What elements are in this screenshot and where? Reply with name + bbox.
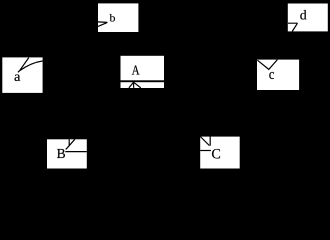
node c: [257, 60, 299, 90]
label d: [300, 10, 306, 20]
arrow head into node b (edge from a): [98, 22, 107, 27]
arrow head into node a (edge from b): [18, 58, 43, 73]
arrow head into node C (edge from A): [200, 137, 210, 146]
arrow head into node A bottom (edges from B and C): [129, 82, 141, 88]
node C: [200, 137, 240, 169]
wire edge C to B: [65, 151, 87, 153]
arrow head into node d (edge from c): [288, 23, 298, 31]
label B: [57, 149, 65, 158]
node A (two compartments): [121, 56, 165, 88]
node d: [288, 4, 328, 32]
label c: [269, 72, 274, 79]
label b: [110, 14, 116, 22]
arrow head into node c (edge from above): [257, 60, 277, 70]
node a: [2, 57, 42, 93]
arrow head into node B (edge from A): [66, 139, 75, 149]
label C: [212, 149, 220, 158]
node b: [98, 3, 138, 32]
node B: [47, 139, 87, 168]
label a: [15, 74, 21, 81]
divider of node A: [121, 80, 165, 82]
label A: [132, 65, 140, 74]
wire edge C to B tail: [200, 150, 211, 152]
